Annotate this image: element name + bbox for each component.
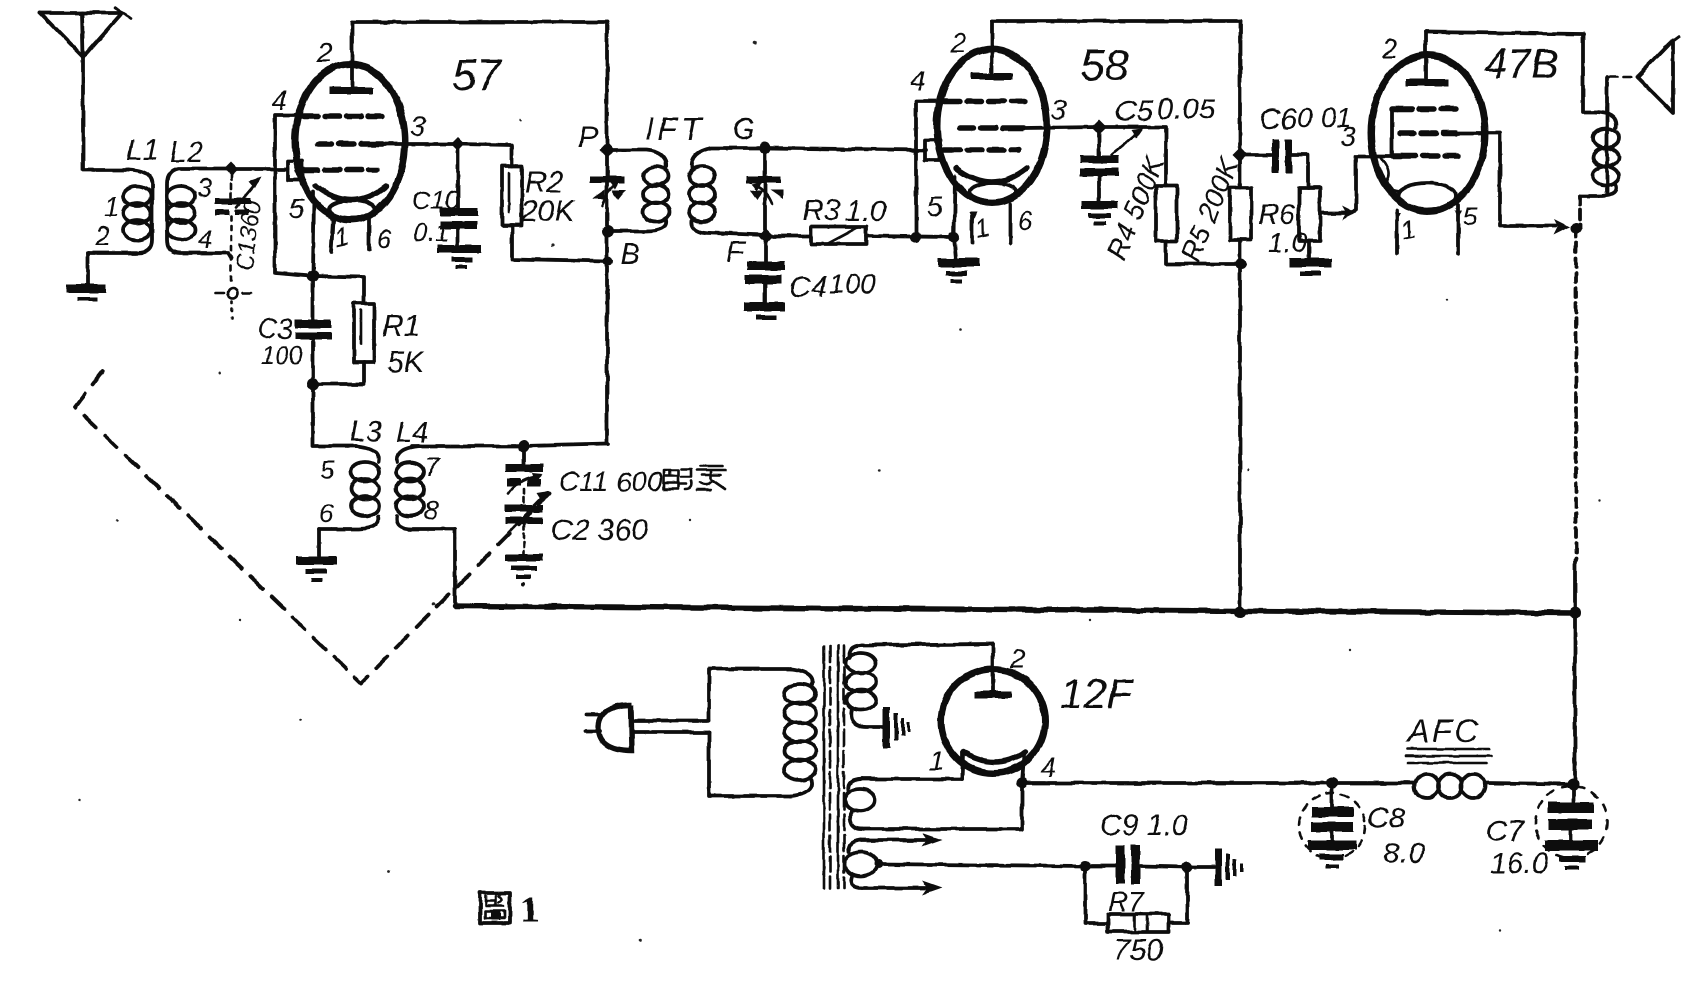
svg-text:750: 750 bbox=[1113, 934, 1163, 967]
node B bbox=[602, 225, 614, 237]
svg-text:4: 4 bbox=[272, 85, 288, 116]
capacitor C8 8.0 (electrolytic) bbox=[1299, 783, 1425, 870]
node C9 right bbox=[1182, 862, 1193, 873]
svg-text:8.0: 8.0 bbox=[1383, 837, 1425, 870]
wire pin4 (57) to cathode node bbox=[275, 116, 311, 276]
svg-text:20K: 20K bbox=[520, 195, 576, 228]
node C3/R1 bottom junction bbox=[307, 378, 319, 390]
wire plate pin3 (57) to node bbox=[383, 142, 458, 146]
resistor R4 500K bbox=[1099, 127, 1242, 264]
tube V1 57 bbox=[288, 22, 405, 220]
node pin3/C10/R2 bbox=[451, 137, 465, 151]
svg-text:2: 2 bbox=[94, 221, 110, 251]
svg-text:R1: R1 bbox=[382, 310, 420, 343]
speaker bbox=[1609, 36, 1679, 113]
wire antenna lead bbox=[83, 57, 128, 170]
wire junction down to L3 bbox=[313, 384, 356, 446]
capacitor C9 1.0 bbox=[1085, 809, 1189, 884]
pin 6 stub (58) bbox=[1008, 204, 1012, 243]
svg-text:1.0: 1.0 bbox=[845, 195, 887, 228]
svg-text:7: 7 bbox=[425, 452, 441, 482]
svg-text:3: 3 bbox=[1051, 94, 1067, 125]
svg-text:C7: C7 bbox=[1486, 815, 1526, 848]
ground (L3) bbox=[296, 556, 337, 582]
node R2 return bbox=[603, 256, 613, 266]
wire B+ vertical (IFT primary line) bbox=[605, 22, 609, 444]
svg-text:C5: C5 bbox=[1115, 95, 1154, 128]
node R3/pin4 bbox=[911, 232, 922, 243]
ground (R6) bbox=[1289, 258, 1332, 276]
svg-text:C8: C8 bbox=[1367, 802, 1406, 835]
svg-text:G: G bbox=[732, 113, 755, 146]
node F bbox=[759, 229, 774, 244]
pin 1 stub (57) bbox=[331, 220, 333, 252]
node output/plate junction bbox=[1571, 223, 1582, 234]
tube V3 47B bbox=[1371, 32, 1485, 211]
heater winding bbox=[845, 840, 877, 888]
wire filament top to pin 1 bbox=[861, 752, 962, 779]
wire G to 58 grid cap bbox=[765, 148, 926, 150]
IFT secondary trimmer cap bbox=[746, 176, 783, 204]
tube V2 58 bbox=[925, 21, 1047, 203]
IFT secondary winding bbox=[689, 148, 766, 235]
svg-text:6: 6 bbox=[319, 498, 334, 528]
svg-text:58: 58 bbox=[1080, 41, 1129, 90]
svg-text:F: F bbox=[726, 236, 746, 269]
wire grid row2 (47B) to output node bbox=[1456, 133, 1570, 235]
resistor R5 200K bbox=[1175, 21, 1251, 612]
pin 1 stub (58) bbox=[970, 214, 974, 243]
svg-text:57: 57 bbox=[452, 51, 502, 100]
figure label 圖 1 bbox=[480, 889, 539, 931]
wire L3 to ground bbox=[317, 529, 321, 556]
capacitor C2 360 (tuning) bbox=[505, 491, 549, 586]
svg-text:100: 100 bbox=[261, 342, 303, 370]
wire R6 to 47B grid with arrow bbox=[1320, 156, 1402, 220]
svg-text:L3: L3 bbox=[350, 416, 382, 448]
wire heater tap to C9 bbox=[879, 864, 1085, 866]
node C7 tap bbox=[1567, 778, 1579, 790]
capacitor C7 16.0 (electrolytic) bbox=[1486, 784, 1607, 880]
svg-text:P: P bbox=[578, 121, 598, 154]
svg-text:3: 3 bbox=[1340, 121, 1356, 152]
power transformer core bbox=[824, 646, 844, 888]
svg-text:4: 4 bbox=[910, 65, 926, 96]
ground (58 cathode) bbox=[938, 258, 980, 283]
node rail/R5 bbox=[1234, 606, 1246, 618]
svg-text:R3: R3 bbox=[802, 194, 841, 227]
node heater center tap bbox=[875, 860, 884, 869]
svg-text:C3: C3 bbox=[257, 313, 293, 344]
rectifier filament winding bbox=[845, 779, 875, 829]
svg-text:0.1: 0.1 bbox=[413, 217, 449, 247]
tube V4 12F bbox=[941, 644, 1045, 783]
svg-text:3: 3 bbox=[410, 111, 426, 142]
svg-text:IFT: IFT bbox=[645, 111, 705, 147]
svg-text:C9 1.0: C9 1.0 bbox=[1100, 809, 1189, 842]
resistor R3 1.0 bbox=[766, 194, 954, 244]
resistor R7 750 bbox=[1085, 866, 1187, 967]
svg-text:5: 5 bbox=[1463, 201, 1478, 231]
wire B+ rail (47B top) bbox=[1426, 32, 1596, 112]
resistor R2 20K bbox=[458, 144, 608, 261]
svg-text:4: 4 bbox=[198, 224, 213, 254]
wire L4 top to C11 node and corner bbox=[412, 444, 608, 446]
wire grid (L2 junction to 57 grid cap) bbox=[231, 167, 288, 171]
capacitor C6 0.01 bbox=[1240, 102, 1352, 188]
svg-text:C6: C6 bbox=[1259, 103, 1298, 136]
svg-text:2: 2 bbox=[316, 37, 333, 68]
wire L4 bottom to rail corner bbox=[453, 529, 457, 606]
wire B+ rail (57 top) bbox=[352, 20, 607, 24]
svg-text:1: 1 bbox=[104, 192, 119, 222]
svg-text:L1: L1 bbox=[126, 134, 159, 167]
svg-text:C4: C4 bbox=[789, 271, 827, 304]
ground (L1) bbox=[66, 284, 106, 301]
svg-text:5: 5 bbox=[927, 191, 943, 222]
svg-text:8: 8 bbox=[424, 495, 439, 525]
coil L1 bbox=[88, 170, 152, 253]
svg-text:5: 5 bbox=[289, 193, 305, 224]
ground (HV center tap, sideways) bbox=[883, 707, 910, 748]
wire L1 to ground bbox=[86, 253, 90, 284]
svg-text:47B: 47B bbox=[1484, 40, 1559, 87]
svg-text:3: 3 bbox=[197, 173, 212, 203]
wire rail to C7 column bbox=[1573, 613, 1577, 784]
coil L4 bbox=[396, 446, 455, 529]
power transformer primary loop bbox=[709, 669, 791, 796]
ground (sideways, right of C9) bbox=[1187, 848, 1243, 886]
svg-text:C10: C10 bbox=[412, 185, 460, 215]
capacitor C3 100 bbox=[257, 276, 331, 384]
svg-text:2: 2 bbox=[1009, 643, 1026, 674]
pin 6 stub (57) bbox=[367, 218, 371, 250]
node C8 tap bbox=[1326, 777, 1338, 789]
svg-text:4: 4 bbox=[1040, 752, 1056, 783]
svg-text:R7: R7 bbox=[1108, 886, 1145, 917]
coil L2 bbox=[167, 169, 231, 258]
wire pin5 cathode (57) bbox=[313, 192, 314, 276]
AFC choke bbox=[1332, 713, 1573, 798]
svg-text:1.0: 1.0 bbox=[1268, 227, 1307, 258]
pin 1 stub (47B) bbox=[1395, 210, 1399, 253]
antenna bbox=[40, 8, 131, 57]
node C9 left bbox=[1080, 861, 1091, 872]
svg-text:6: 6 bbox=[377, 224, 392, 254]
wire HV top to 12F plate bbox=[862, 644, 993, 645]
svg-text:1: 1 bbox=[520, 889, 539, 931]
gang dashed link bbox=[75, 371, 549, 683]
resistor R1 5K bbox=[313, 276, 426, 384]
node G bbox=[759, 142, 771, 154]
svg-text:5K: 5K bbox=[387, 346, 426, 379]
power plug bbox=[586, 705, 632, 751]
resistor R6 1.0 bbox=[1258, 188, 1320, 259]
output transformer winding bbox=[1580, 77, 1619, 196]
svg-text:1: 1 bbox=[929, 745, 945, 776]
node C11 top bbox=[518, 440, 530, 452]
svg-text:100: 100 bbox=[829, 268, 876, 299]
wire B+ rail (58 top) bbox=[992, 19, 1240, 23]
node R4/R5 junction bbox=[1236, 259, 1247, 270]
svg-text:2: 2 bbox=[1381, 33, 1398, 64]
capacitor C1 360 (variable) bbox=[215, 175, 267, 318]
node P bbox=[600, 142, 615, 158]
wire pin3 (58) to C5 node bbox=[1024, 127, 1099, 128]
capacitor C10 0.1 bbox=[412, 144, 481, 269]
wire heater lead A with arrow bbox=[861, 833, 942, 847]
svg-text:0.05: 0.05 bbox=[1157, 93, 1216, 126]
pin 5 stub (47B) bbox=[1456, 205, 1460, 253]
wire filament bottom to pin 4 node bbox=[862, 783, 1022, 829]
IFT primary trimmer cap bbox=[590, 176, 626, 205]
svg-text:L2: L2 bbox=[170, 136, 204, 169]
node C6 tap bbox=[1233, 148, 1248, 163]
label 配定 bbox=[664, 466, 726, 490]
IFT primary winding bbox=[608, 150, 669, 231]
capacitor C11 600 (padder) bbox=[505, 446, 543, 505]
wire pin4 to AFC line bbox=[1022, 781, 1332, 785]
svg-text:6: 6 bbox=[1018, 206, 1033, 236]
wire pin5 cathode (58) bbox=[954, 176, 956, 259]
node cathode junction bbox=[307, 270, 319, 282]
capacitor C5 0.05 bbox=[1080, 93, 1216, 225]
HV secondary winding bbox=[846, 645, 883, 727]
svg-text:AFC: AFC bbox=[1406, 713, 1481, 749]
wire output transformer bottom to node bbox=[1578, 196, 1582, 228]
wire screen drop to B- rail bbox=[1575, 228, 1576, 613]
node cathode (58) bbox=[949, 232, 960, 243]
power transformer primary winding bbox=[784, 669, 816, 796]
node C5 bbox=[1092, 120, 1107, 135]
wire B- bus rail bbox=[455, 606, 1575, 613]
svg-text:2: 2 bbox=[950, 27, 967, 58]
wire pin4 (58) bbox=[916, 101, 944, 237]
node L2/C1/grid junction bbox=[224, 162, 238, 176]
node rail/output drop bbox=[1569, 607, 1581, 619]
svg-text:C2 360: C2 360 bbox=[551, 514, 648, 547]
coil L3 bbox=[319, 446, 379, 529]
wire G line (IFT secondary top) bbox=[763, 148, 767, 236]
capacitor C4 100 bbox=[744, 236, 876, 320]
wire mains cord bbox=[632, 721, 709, 732]
svg-text:5: 5 bbox=[320, 455, 335, 485]
svg-text:12F: 12F bbox=[1060, 670, 1135, 717]
svg-text:16.0: 16.0 bbox=[1490, 847, 1549, 880]
wire heater lead B with arrow bbox=[862, 881, 942, 895]
node pin4 junction bbox=[1017, 778, 1028, 789]
svg-text:C11 600: C11 600 bbox=[559, 466, 663, 497]
svg-text:B: B bbox=[620, 238, 640, 271]
